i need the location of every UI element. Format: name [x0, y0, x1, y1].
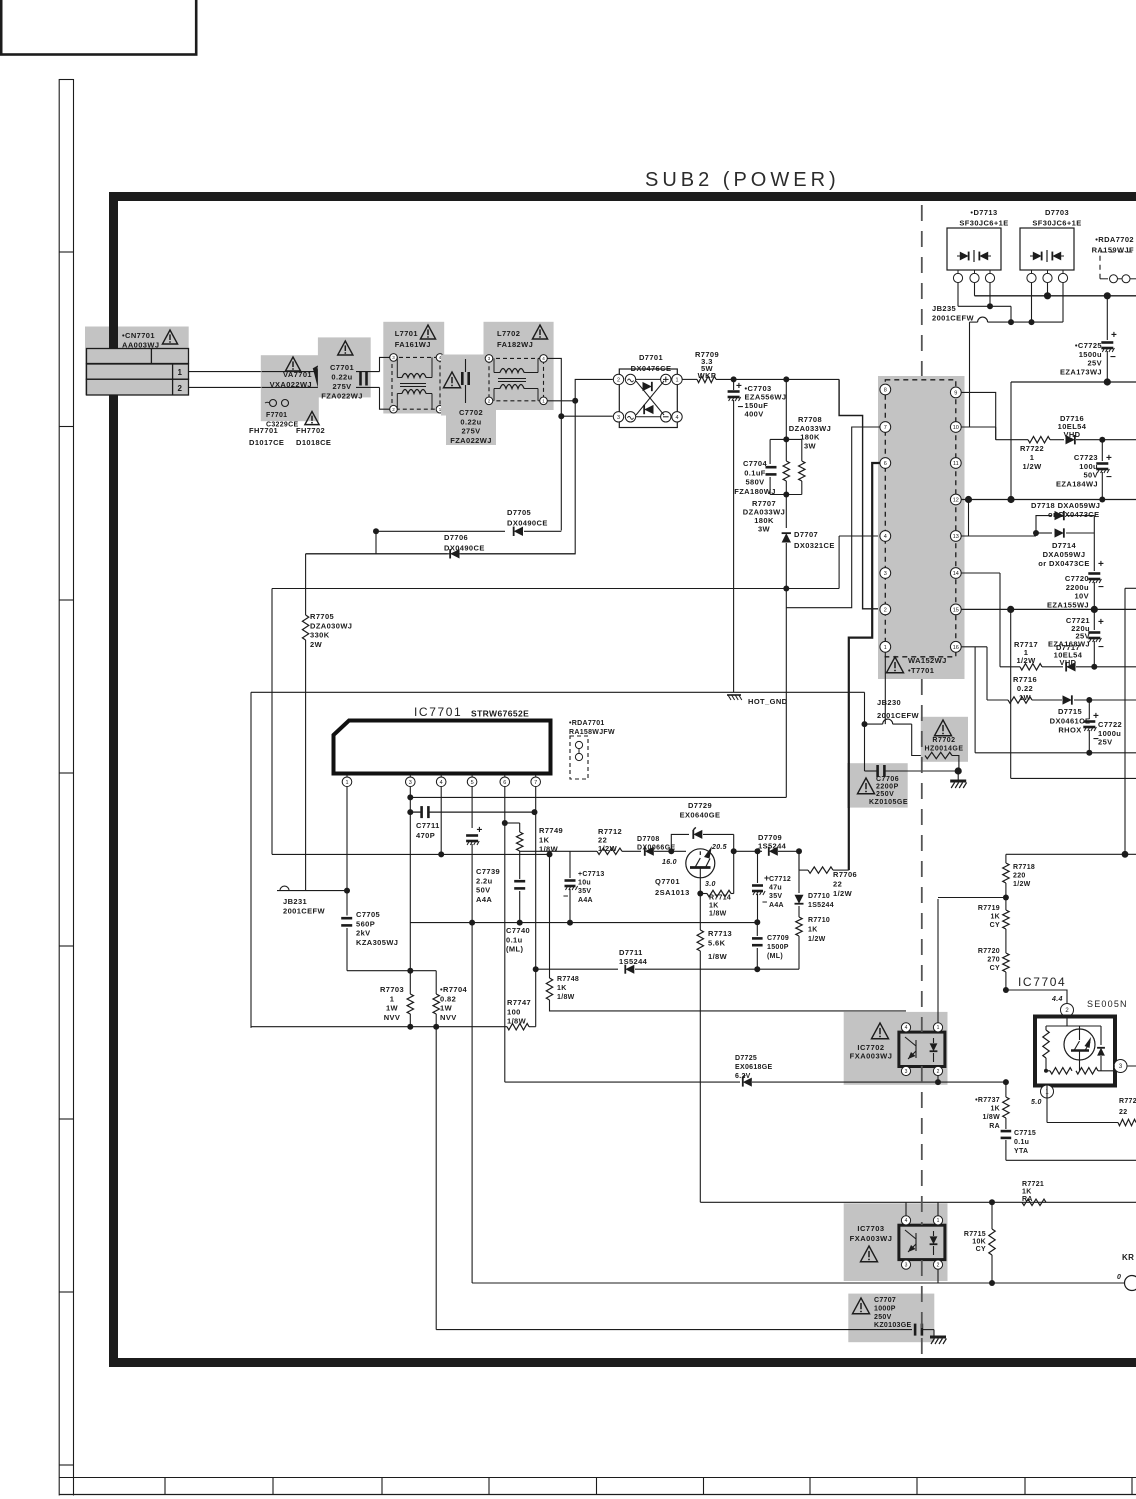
svg-text:CY: CY [990, 965, 1000, 972]
svg-text:−: − [1098, 582, 1104, 593]
svg-text:6: 6 [503, 780, 506, 786]
wire 10V return row [1010, 609, 1012, 778]
svg-text:0.82: 0.82 [440, 994, 456, 1003]
svg-text:1: 1 [937, 1218, 940, 1224]
svg-text:YTA: YTA [1014, 1148, 1028, 1155]
svg-text:180K: 180K [800, 433, 820, 442]
svg-text:47u: 47u [769, 885, 782, 892]
svg-text:3W: 3W [758, 525, 771, 534]
svg-text:C7739: C7739 [476, 867, 500, 876]
fuse F7701 [270, 400, 277, 407]
svg-text:2001CEFW: 2001CEFW [877, 711, 919, 720]
svg-text:2kV: 2kV [356, 929, 371, 938]
svg-text:R7703: R7703 [380, 985, 404, 994]
wire C7701 to L7701 jog top [380, 357, 390, 371]
capacitor C7705 [346, 891, 348, 916]
svg-text:0.22: 0.22 [1017, 684, 1033, 693]
ground cold side near R7702 [957, 771, 959, 780]
resistor R7706 [798, 851, 800, 870]
svg-text:C7709: C7709 [767, 935, 789, 942]
resistor R7737 [1005, 1082, 1007, 1097]
wire live rail down to D7706 row [306, 401, 576, 554]
wire L7702 pin4 to neutral rail [547, 358, 561, 530]
svg-text:C7705: C7705 [356, 910, 380, 919]
wire D7703 ~ pin down [1031, 283, 1033, 323]
svg-text:15: 15 [953, 607, 959, 613]
svg-text:1000P: 1000P [874, 1305, 896, 1312]
hot/cold isolation dashed line [921, 205, 923, 376]
svg-text:8: 8 [884, 387, 887, 393]
resistor R7720 [1003, 953, 1009, 972]
svg-text:KR: KR [1122, 1253, 1134, 1262]
svg-text:WA152WJ: WA152WJ [908, 656, 947, 665]
svg-text:7: 7 [884, 425, 887, 431]
wire feedback mid rail [272, 588, 839, 590]
svg-text:25V: 25V [1087, 359, 1102, 368]
wire C7701 to L7701 jog bottom [380, 387, 390, 409]
svg-text:IC7704: IC7704 [1018, 975, 1066, 989]
wire transformer pin6 primary return thick [849, 463, 880, 870]
svg-text:D7710: D7710 [808, 893, 830, 900]
svg-text:1/8W: 1/8W [709, 911, 727, 918]
wire source sense bus [251, 1026, 507, 1028]
svg-text:3W: 3W [804, 441, 817, 450]
svg-text:1/2W: 1/2W [833, 889, 853, 898]
svg-text:D7715: D7715 [1058, 707, 1082, 716]
node junction live rail split [572, 398, 578, 404]
wire D7703 R pin down [1062, 283, 1064, 323]
wire 25V rail [1011, 381, 1136, 383]
wire R7704 column down [435, 1027, 437, 1330]
svg-text:C7706: C7706 [876, 776, 899, 783]
svg-text:C7707: C7707 [874, 1297, 896, 1304]
line filter L7702 [484, 322, 554, 410]
svg-text:3: 3 [617, 415, 620, 421]
svg-text:2200u: 2200u [1066, 583, 1089, 592]
wire D7706 row [306, 553, 448, 555]
svg-text:6: 6 [884, 461, 887, 467]
svg-text:1K: 1K [557, 985, 567, 992]
svg-text:1/2W: 1/2W [808, 936, 826, 943]
svg-text:D7706: D7706 [444, 533, 468, 542]
svg-text:R772: R772 [1119, 1098, 1136, 1105]
svg-text:KZA305WJ: KZA305WJ [356, 938, 398, 947]
node D7703 N pin on bus [1047, 283, 1049, 296]
wire pin5 column [471, 787, 473, 828]
wire pin13 row [961, 535, 1036, 537]
svg-text:D7729: D7729 [688, 801, 712, 810]
capacitor C7715 [1005, 1118, 1007, 1129]
svg-text:C7720: C7720 [1065, 574, 1089, 583]
svg-text:250V: 250V [874, 1314, 892, 1321]
node D7707 anode [783, 586, 789, 592]
svg-text:C7740: C7740 [506, 926, 530, 935]
svg-text:2200P: 2200P [876, 784, 899, 791]
wire pin14 down to R7717 [999, 573, 1001, 667]
svg-text:R7721: R7721 [1022, 1181, 1044, 1188]
svg-text:FZA180WJ: FZA180WJ [734, 487, 776, 496]
wire snubber bus [410, 922, 757, 924]
svg-text:FA182WJ: FA182WJ [497, 340, 533, 349]
svg-text:2SA1013: 2SA1013 [655, 888, 690, 897]
svg-text:1/8W: 1/8W [557, 994, 575, 1001]
svg-text:−: − [762, 897, 767, 907]
svg-text:RHOX: RHOX [1058, 726, 1081, 735]
svg-text:HZ0014GE: HZ0014GE [924, 746, 963, 753]
svg-text:1K: 1K [808, 927, 818, 934]
svg-text:RA158WJFW: RA158WJFW [569, 729, 615, 736]
svg-text:C7702: C7702 [459, 408, 483, 417]
svg-text:•D7713: •D7713 [970, 208, 997, 217]
svg-text:SF30JC6+1E: SF30JC6+1E [1032, 219, 1081, 228]
wire drive row [520, 850, 597, 852]
svg-text:•RDA7702: •RDA7702 [1095, 235, 1134, 244]
capacitor C7713 [569, 851, 571, 878]
svg-text:11: 11 [953, 461, 959, 467]
svg-text:20.5: 20.5 [711, 844, 727, 851]
wire C7715 return [1006, 1159, 1136, 1161]
svg-text:•T7701: •T7701 [908, 666, 934, 675]
svg-text:F7701: F7701 [266, 412, 287, 419]
svg-text:1: 1 [345, 780, 348, 786]
wire R7709 to HV rail [716, 378, 839, 380]
svg-text:4.4: 4.4 [1051, 996, 1063, 1003]
svg-text:A4A: A4A [476, 895, 492, 904]
wire JB235 down to transformer pin10 [969, 322, 971, 427]
svg-text:R7702: R7702 [932, 737, 955, 744]
svg-text:1/8W: 1/8W [982, 1114, 1000, 1121]
svg-text:(ML): (ML) [506, 945, 524, 954]
svg-text:D7707: D7707 [794, 530, 818, 539]
svg-text:4: 4 [440, 780, 443, 786]
wire 25V return row [975, 752, 1136, 754]
svg-text:1/8W: 1/8W [708, 952, 728, 961]
svg-text:35V: 35V [769, 893, 782, 900]
svg-text:D7708: D7708 [637, 836, 660, 843]
svg-text:D7711: D7711 [619, 948, 643, 957]
svg-text:FA161WJ: FA161WJ [395, 340, 431, 349]
svg-text:SF30JC6+1E: SF30JC6+1E [959, 219, 1008, 228]
svg-text:2: 2 [937, 1262, 940, 1268]
wire D7713 ~ pin down [957, 283, 959, 307]
svg-text:2: 2 [617, 377, 620, 383]
svg-text:330K: 330K [310, 631, 330, 640]
resistor R7718 [1005, 854, 1007, 863]
svg-text:25V: 25V [1098, 738, 1113, 747]
wire pin6 branch to R7749 [505, 822, 520, 824]
svg-text:1500u: 1500u [1079, 350, 1102, 359]
svg-text:1W: 1W [386, 1004, 399, 1013]
wire pin15 10V bus [961, 608, 1136, 610]
node D7716 out [1099, 437, 1105, 443]
svg-text:3: 3 [905, 1069, 908, 1075]
svg-text:400V: 400V [745, 410, 764, 419]
svg-text:10u: 10u [578, 880, 591, 887]
wire L7701 to L7702 top rail [444, 356, 486, 358]
svg-text:10K: 10K [972, 1239, 986, 1246]
node 25V to R7718 [1122, 851, 1129, 858]
svg-text:RA159WJF: RA159WJF [1092, 246, 1134, 255]
svg-text:•R7704: •R7704 [440, 985, 468, 994]
svg-text:EZA184WJ: EZA184WJ [1056, 479, 1098, 488]
svg-text:1/2W: 1/2W [1013, 881, 1031, 888]
svg-text:FZA022WJ: FZA022WJ [321, 392, 363, 401]
svg-text:3: 3 [884, 571, 887, 577]
svg-text:275V: 275V [332, 382, 351, 391]
svg-text:−: − [1106, 472, 1112, 483]
svg-text:or DX0473CE: or DX0473CE [1038, 559, 1090, 568]
svg-text:D7705: D7705 [507, 508, 531, 517]
svg-text:R7705: R7705 [310, 612, 334, 621]
svg-text:2: 2 [937, 1069, 940, 1075]
wire C7705 to R7703/R7704 [347, 970, 436, 972]
node junction L7702 pin4 / bridge pin3 rail [558, 413, 564, 419]
wire transformer pin1 down to JB230 [884, 652, 886, 724]
wire drive row right [734, 850, 762, 852]
svg-text:2001CEFW: 2001CEFW [932, 314, 974, 323]
svg-text:4: 4 [675, 415, 678, 421]
svg-text:JB230: JB230 [877, 698, 901, 707]
wire pin6 column [504, 787, 506, 823]
hot ground rail wire [251, 691, 865, 693]
svg-text:9: 9 [954, 390, 957, 396]
svg-text:2001CEFW: 2001CEFW [283, 907, 325, 916]
svg-text:2W: 2W [310, 640, 323, 649]
svg-text:C7715: C7715 [1014, 1130, 1036, 1137]
svg-text:5: 5 [471, 780, 474, 786]
wire pin1 column [346, 787, 348, 891]
wire L7701 to L7702 bottom rail [444, 401, 486, 409]
svg-text:100u: 100u [1079, 462, 1098, 471]
svg-text:5.0: 5.0 [1031, 1099, 1042, 1106]
svg-text:0.22u: 0.22u [331, 373, 352, 382]
svg-text:100: 100 [507, 1007, 521, 1016]
svg-text:−: − [1098, 642, 1104, 653]
svg-text:EZA173WJ: EZA173WJ [1060, 367, 1102, 376]
svg-text:R7706: R7706 [833, 870, 857, 879]
diode D7714 [1033, 530, 1039, 536]
svg-text:1500P: 1500P [767, 944, 789, 951]
node C7725 bottom [1104, 378, 1111, 385]
capacitor C7706 [848, 763, 907, 807]
svg-text:R7708: R7708 [798, 415, 822, 424]
wire pin7 column [535, 787, 537, 813]
svg-text:16.0: 16.0 [662, 859, 677, 866]
wire L7702 pin1 to live rail [547, 400, 575, 402]
svg-text:C7704: C7704 [743, 459, 768, 468]
svg-text:1K: 1K [539, 835, 550, 844]
wire 25V rail down to pin12 bus [1010, 382, 1012, 500]
svg-text:3.0: 3.0 [705, 881, 716, 888]
svg-text:+: + [1111, 330, 1117, 341]
svg-text:C7723: C7723 [1074, 453, 1098, 462]
svg-text:JB235: JB235 [932, 304, 956, 313]
svg-text:1K: 1K [990, 914, 1000, 921]
jumper JB231 [277, 890, 347, 892]
svg-text:•RDA7701: •RDA7701 [569, 720, 605, 727]
transformer T7701 WA152WJ [878, 376, 965, 679]
svg-text:1K: 1K [990, 1106, 1000, 1113]
svg-text:1S5244: 1S5244 [619, 957, 648, 966]
wire pin3 column lower [409, 812, 411, 971]
diode D7715 [1032, 699, 1062, 701]
svg-text:2.2u: 2.2u [476, 876, 493, 885]
svg-text:IC7701: IC7701 [414, 705, 462, 719]
opto coupler IC7703 [844, 1203, 948, 1281]
svg-text:R7722: R7722 [1020, 444, 1044, 453]
wire Q7701 emitter sense column [699, 894, 701, 931]
svg-text:•R7737: •R7737 [975, 1097, 1000, 1104]
wire IC7703 pin4 up [905, 1202, 907, 1216]
svg-text:FZA022WJ: FZA022WJ [450, 436, 492, 445]
wire IC7704 pin1 down [1046, 1086, 1048, 1123]
svg-text:D1017CE: D1017CE [249, 438, 284, 447]
wire transformer pin9 jog [961, 392, 996, 439]
wire IC7703 pin1 up [937, 1202, 939, 1216]
svg-text:C7712: C7712 [769, 876, 791, 883]
svg-text:R7749: R7749 [539, 826, 563, 835]
wire pin16 branch down to 25V return [974, 647, 976, 753]
svg-text:0.22u: 0.22u [460, 417, 481, 426]
wire transformer pin7 to aux supply [786, 427, 879, 608]
sheet border segment over connector [109, 192, 118, 349]
wire pin4 column [440, 787, 442, 855]
wire IC7702 pin2 down [937, 1076, 939, 1083]
capacitor C7701 [318, 337, 371, 397]
capacitor C7702 [441, 355, 496, 416]
capacitor C7709 [756, 922, 758, 936]
svg-text:D1018CE: D1018CE [296, 438, 331, 447]
svg-text:1: 1 [937, 1025, 940, 1031]
svg-text:C7722: C7722 [1098, 720, 1122, 729]
wire live rail up to bridge pin2 [575, 379, 613, 400]
svg-text:STRW67652E: STRW67652E [471, 709, 529, 719]
svg-text:3: 3 [905, 1262, 908, 1268]
svg-text:50V: 50V [1083, 471, 1098, 480]
svg-text:R7710: R7710 [808, 917, 830, 924]
wire IC7703 pin2 down [937, 1269, 939, 1283]
wire IC7704 pin3 out [1114, 1065, 1115, 1067]
wire pin14 row [961, 572, 1000, 574]
svg-text:50V: 50V [476, 886, 491, 895]
diode D7707 [782, 533, 791, 542]
wire transformer pin10 row [961, 426, 996, 428]
svg-text:R7718: R7718 [1013, 864, 1035, 871]
svg-text:4: 4 [905, 1025, 908, 1031]
svg-text:2: 2 [178, 384, 183, 393]
svg-text:FXA003WJ: FXA003WJ [850, 1052, 893, 1061]
svg-text:D7703: D7703 [1045, 208, 1069, 217]
svg-text:1: 1 [884, 645, 887, 651]
node Q7701 base [668, 848, 674, 854]
svg-text:1/2W: 1/2W [1022, 462, 1042, 471]
node D7705 wire [373, 528, 379, 534]
node D7717 C7721 [1091, 664, 1097, 670]
svg-text:R7720: R7720 [978, 948, 1000, 955]
transistor Q7701 2SA1013 [686, 849, 715, 878]
svg-text:KZ0103GE: KZ0103GE [874, 1322, 911, 1329]
svg-text:R7748: R7748 [557, 976, 579, 983]
svg-text:RA: RA [989, 1123, 1000, 1130]
svg-text:1S5244: 1S5244 [758, 842, 787, 851]
svg-text:5.6K: 5.6K [708, 938, 726, 947]
svg-text:R7715: R7715 [964, 1231, 986, 1238]
svg-text:0.1u: 0.1u [506, 935, 523, 944]
svg-text:1/8W: 1/8W [507, 1017, 527, 1026]
svg-text:3: 3 [409, 780, 412, 786]
svg-text:R7716: R7716 [1013, 675, 1037, 684]
diode D7710 / resistor R7710 column [798, 851, 800, 893]
svg-text:1W: 1W [440, 1004, 453, 1013]
line filter L7701 [383, 322, 444, 414]
title block box top-left [1, 0, 196, 55]
svg-text:NVV: NVV [384, 1013, 401, 1022]
svg-text:KZ0105GE: KZ0105GE [869, 799, 908, 806]
svg-text:1S5244: 1S5244 [808, 902, 834, 909]
node D7713 R pin [989, 283, 991, 307]
wire transformer pin4 to mid rail [839, 535, 879, 537]
svg-text:−: − [738, 402, 744, 413]
capacitor C7711 [409, 797, 411, 812]
svg-text:DX0321CE: DX0321CE [794, 541, 835, 550]
svg-text:JB231: JB231 [283, 897, 307, 906]
connector CN7701 [85, 327, 189, 396]
svg-text:470P: 470P [416, 831, 435, 840]
node C7725 top on bus [1104, 292, 1111, 299]
wire pin3 feedback to D7707 node [409, 787, 411, 798]
svg-text:−: − [1110, 352, 1116, 363]
svg-text:0: 0 [1117, 1274, 1121, 1281]
svg-text:FH7702: FH7702 [296, 426, 325, 435]
svg-text:275V: 275V [461, 427, 480, 436]
svg-text:EX0618GE: EX0618GE [735, 1064, 772, 1071]
wire HV rail step to transformer pin2 [839, 379, 879, 608]
svg-text:12: 12 [953, 497, 959, 503]
left ruler [58, 79, 60, 1496]
ground HOT_GND [727, 694, 741, 696]
svg-text:EZA155WJ: EZA155WJ [1047, 600, 1089, 609]
svg-text:D7718 DXA059WJ: D7718 DXA059WJ [1031, 501, 1100, 510]
ground cold side C7707 [933, 1330, 935, 1336]
bottom ruler [59, 1477, 1136, 1479]
svg-text:DXA059WJ: DXA059WJ [1043, 550, 1086, 559]
svg-text:+: + [1098, 617, 1104, 628]
svg-text:SUB2 (POWER): SUB2 (POWER) [645, 169, 840, 191]
svg-text:−: − [563, 891, 568, 901]
wire secondary main bus + [974, 283, 976, 296]
svg-text:4: 4 [884, 534, 887, 540]
svg-text:A4A: A4A [769, 902, 784, 909]
svg-text:220: 220 [1013, 873, 1026, 880]
wire pin4 feedback row [272, 853, 441, 855]
svg-text:R7719: R7719 [978, 905, 1000, 912]
node R7708 top [783, 376, 789, 382]
svg-text:1K: 1K [1022, 1189, 1032, 1196]
svg-text:1000u: 1000u [1098, 729, 1121, 738]
node R7737 top [1003, 1079, 1009, 1085]
svg-text:14: 14 [953, 571, 959, 577]
svg-text:C7711: C7711 [416, 821, 440, 830]
svg-text:13: 13 [953, 534, 959, 540]
capacitor C7707 [848, 1294, 934, 1343]
svg-text:EX0640GE: EX0640GE [680, 811, 721, 820]
svg-text:D7714: D7714 [1052, 541, 1077, 550]
svg-text:R7747: R7747 [507, 998, 531, 1007]
svg-text:A4A: A4A [578, 897, 593, 904]
resistor R7719 [1003, 910, 1009, 929]
wire pin12 secondary bus [961, 499, 1136, 501]
svg-text:SE005N: SE005N [1087, 999, 1128, 1009]
